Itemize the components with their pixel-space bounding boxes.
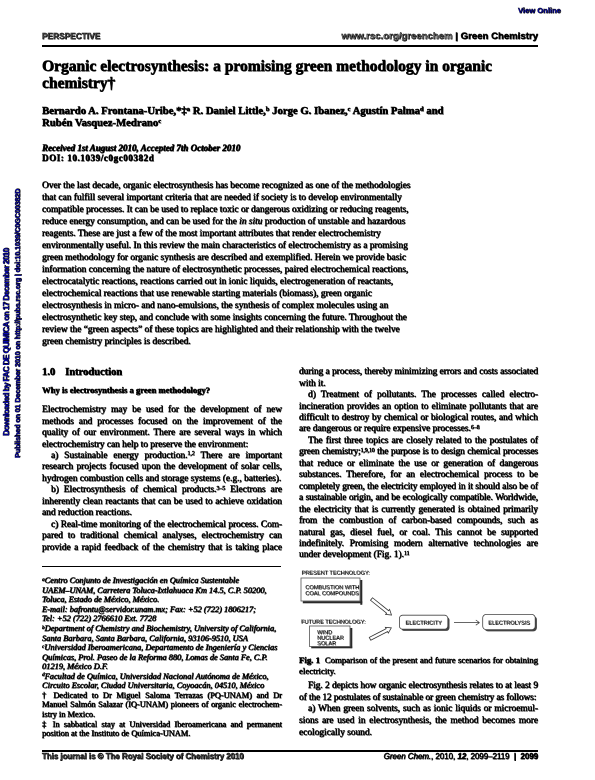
title bbox=[42, 58, 547, 92]
footnotes bbox=[42, 576, 282, 738]
section heading 1.0 Introduction bbox=[42, 367, 122, 378]
electricity box shadow bbox=[401, 617, 449, 631]
thin arrow electricity to electrolysis bbox=[454, 620, 480, 625]
electrolysis box shadow bbox=[484, 616, 537, 631]
svg-text:COAL COMPOUNDS: COAL COMPOUNDS bbox=[305, 591, 359, 597]
box wind/nuclear/solar bbox=[310, 626, 351, 647]
footer left bbox=[42, 752, 244, 761]
svg-text:FUTURE TECHNOLOGY:: FUTURE TECHNOLOGY: bbox=[301, 619, 366, 625]
electrolysis box bbox=[483, 614, 536, 629]
header: PERSPECTIVE bbox=[42, 32, 100, 41]
sidebar rotated line 2: Published on bbox=[14, 189, 22, 458]
footer right bbox=[298, 752, 538, 761]
header right: journal name bbox=[242, 31, 538, 42]
View Online link bbox=[518, 6, 561, 15]
svg-text:COMBUSTION WITH: COMBUSTION WITH bbox=[305, 585, 359, 591]
svg-text:SOLAR: SOLAR bbox=[317, 641, 336, 647]
electricity box bbox=[399, 615, 447, 629]
right column body bbox=[299, 367, 538, 562]
hollow arrow from wind box up-right to electricity bbox=[369, 627, 391, 640]
right column lower paragraphs bbox=[299, 681, 538, 739]
box combustion bbox=[301, 578, 360, 601]
footer rule bbox=[42, 750, 538, 752]
svg-text:ELECTROLYSIS: ELECTROLYSIS bbox=[488, 620, 530, 626]
figure 1 bbox=[296, 565, 542, 655]
box combustion shadow bbox=[360, 580, 362, 605]
subsection heading bbox=[42, 385, 210, 395]
figure caption bbox=[299, 655, 538, 677]
hollow arrow from combustion box down-right to electricity bbox=[371, 598, 392, 615]
box wind/nuclear/solar shadow bbox=[350, 628, 352, 648]
svg-text:ELECTRICITY: ELECTRICITY bbox=[405, 621, 442, 627]
authors bbox=[42, 105, 547, 130]
header rule bbox=[42, 45, 538, 47]
footnote rule bbox=[42, 566, 281, 567]
received / DOI bbox=[42, 143, 240, 153]
left column body bbox=[42, 405, 282, 554]
abstract bbox=[42, 180, 422, 348]
svg-text:PRESENT TECHNOLOGY:: PRESENT TECHNOLOGY: bbox=[302, 571, 371, 577]
sidebar rotated line 1: Downloaded by bbox=[2, 248, 11, 435]
